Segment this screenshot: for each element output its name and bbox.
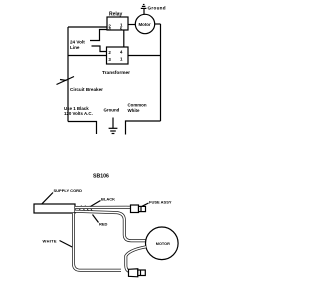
motor M1 circle xyxy=(135,14,154,33)
circuit breaker CB1 (slash through left rail) xyxy=(57,77,75,85)
label: Common White xyxy=(128,103,147,114)
svg-text:BLACK: BLACK xyxy=(101,197,115,202)
fuse assembly F1 xyxy=(131,205,146,213)
wire: relay pin 5 down to transformer top xyxy=(123,30,125,47)
wire: left rail bottom to left plug prong xyxy=(68,122,97,135)
white wire (outline) cord down and right xyxy=(74,213,122,270)
svg-text:Transformer: Transformer xyxy=(102,70,130,76)
leader line for SUPPLY CORD xyxy=(42,193,53,204)
wire: right rail bottom to right plug prong xyxy=(126,121,161,135)
wire: 24V stub B to transformer pin 2 xyxy=(92,46,107,52)
svg-text:Relay: Relay xyxy=(109,12,123,18)
wire: 24V stub A to relay pin 4 xyxy=(90,30,107,41)
svg-text:120 Volts A.C.: 120 Volts A.C. xyxy=(64,111,93,116)
svg-text:Ground: Ground xyxy=(104,108,120,113)
red wire (outline) cord to motor xyxy=(75,211,146,240)
wire: top rail from left rail to relay pin 2 xyxy=(68,26,107,28)
leader line for FUSE ASSY xyxy=(142,203,149,206)
motor M2 circle (bottom) xyxy=(146,227,179,260)
label: Use 1 Black / 120 Volts A.C. xyxy=(64,106,93,116)
motor lead wire (outline) to connector xyxy=(126,247,146,272)
svg-text:SB106: SB106 xyxy=(93,174,109,180)
ground symbol above motor xyxy=(141,5,147,15)
svg-text:Circuit Breaker: Circuit Breaker xyxy=(70,87,103,92)
wire: left rail to transformer pin 3 xyxy=(68,55,107,57)
svg-text:Motor: Motor xyxy=(139,22,151,27)
leader line for BLACK xyxy=(91,201,101,207)
svg-text:Ground: Ground xyxy=(148,6,166,11)
svg-text:FUSE ASSY: FUSE ASSY xyxy=(149,200,172,205)
transformer T1 box xyxy=(107,47,129,64)
wire: left rail vertical xyxy=(67,27,69,122)
svg-text:WHITE: WHITE xyxy=(43,239,57,244)
wire bundle hatch at cord exit xyxy=(77,206,93,213)
label: 24 Volt Line xyxy=(70,40,85,51)
svg-text:RED: RED xyxy=(99,222,108,227)
black wire (outline) xyxy=(75,206,131,209)
ground symbol of plug xyxy=(109,118,118,134)
bottom plug connector xyxy=(129,269,146,277)
svg-text:White: White xyxy=(128,108,141,113)
svg-text:MOTOR: MOTOR xyxy=(156,242,170,246)
svg-text:24 Volt: 24 Volt xyxy=(70,40,85,45)
wire: right rail vertical xyxy=(160,24,162,121)
svg-text:Common: Common xyxy=(128,103,147,108)
leader line for RED xyxy=(93,215,99,223)
relay K1 box xyxy=(107,17,128,30)
wire: relay pin 1 to motor xyxy=(128,24,136,26)
svg-text:Line: Line xyxy=(70,45,80,50)
svg-text:SUPPLY CORD: SUPPLY CORD xyxy=(54,188,83,193)
leader line for WHITE xyxy=(60,241,73,248)
wire: motor to right rail xyxy=(155,23,161,25)
wire: transformer right to right rail xyxy=(128,55,161,57)
supply cord body xyxy=(34,204,75,213)
